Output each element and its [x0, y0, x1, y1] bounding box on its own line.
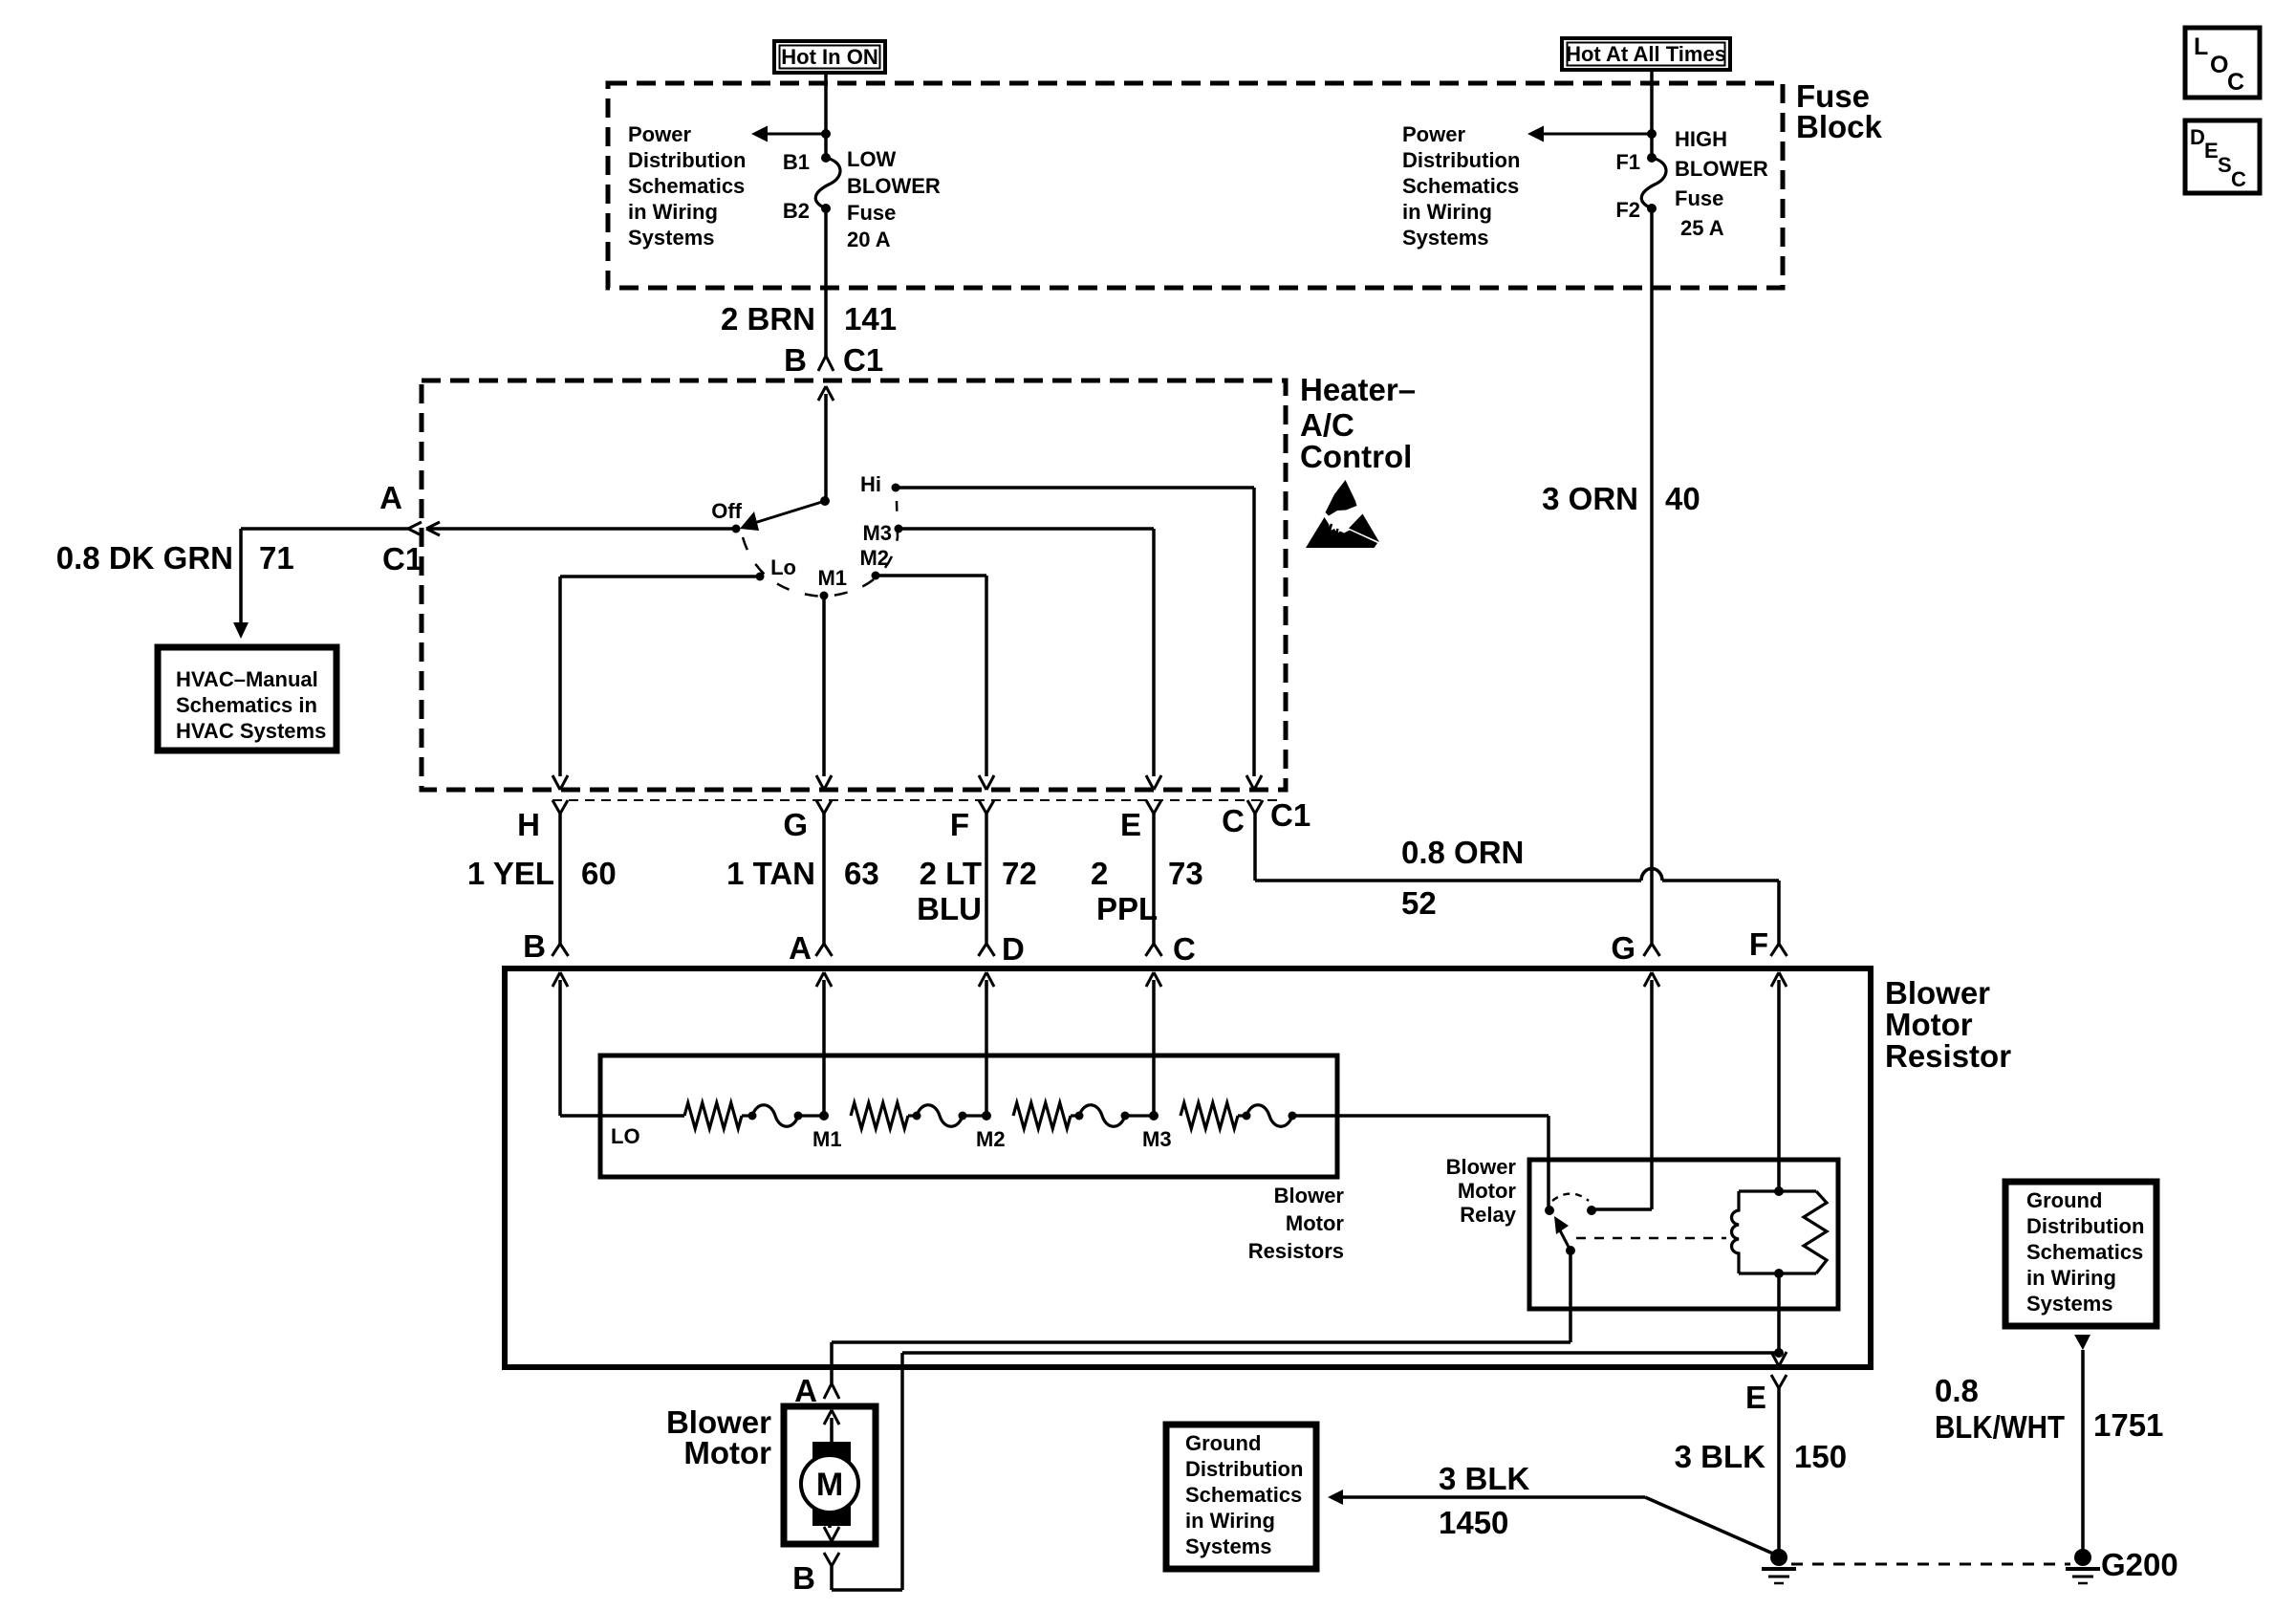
svg-text:F2: F2: [1615, 198, 1640, 222]
svg-text:BLK/WHT: BLK/WHT: [1935, 1409, 2065, 1445]
relay blade with arrow: [1560, 1230, 1570, 1251]
wire 3 ORN 40 down to connector G: [1650, 208, 1654, 944]
svg-text:B: B: [792, 1560, 815, 1596]
junction node: [1647, 129, 1657, 139]
resistor M2-M3: [1013, 1103, 1071, 1129]
wire F down to relay coil: [1777, 980, 1781, 1191]
fuse block dashed box: [608, 83, 1783, 288]
connector H (arrow + fork): [552, 775, 560, 790]
svg-text:Blower: Blower: [1885, 975, 1990, 1011]
svg-text:LOW: LOW: [847, 147, 897, 171]
svg-text:Control: Control: [1300, 439, 1412, 474]
HIGH BLOWER fuse 25A: [1647, 153, 1657, 163]
svg-text:150: 150: [1794, 1439, 1847, 1474]
svg-text:M1: M1: [817, 566, 847, 590]
relay resistor (right branch): [1804, 1191, 1827, 1273]
connector B into resistor box: [552, 944, 561, 956]
svg-text:C1: C1: [1270, 797, 1310, 833]
svg-text:BLOWER: BLOWER: [1675, 157, 1768, 181]
connector F (arrow + fork): [979, 775, 986, 790]
M1 contact (bottom): [820, 592, 829, 600]
M2 contact: [872, 572, 880, 580]
wire chain output to relay common: [1292, 1114, 1549, 1118]
svg-text:BLOWER: BLOWER: [847, 174, 941, 198]
relay contact dashed arc: [1552, 1194, 1589, 1202]
ground G200 (left): [1770, 1549, 1787, 1566]
svg-text:A: A: [789, 930, 812, 966]
svg-text:H: H: [517, 807, 540, 842]
thermal limiter 4: [1243, 1112, 1251, 1120]
svg-text:Power: Power: [628, 122, 691, 146]
wire from Hot In ON to junction: [824, 73, 828, 158]
relay common contact: [1545, 1206, 1554, 1215]
svg-text:D: D: [2190, 125, 2205, 149]
thermal limiter 2: [913, 1112, 921, 1120]
svg-text:3 BLK: 3 BLK: [1439, 1461, 1530, 1496]
wire Off to connector A: [426, 527, 732, 531]
switch position arc (dashed): [743, 501, 898, 597]
resistor LO-M1: [684, 1103, 742, 1129]
svg-text:Motor: Motor: [1458, 1179, 1517, 1203]
Off contact: [732, 525, 741, 533]
svg-text:O: O: [2210, 52, 2228, 78]
ground tie dashed line: [1791, 1563, 2070, 1566]
svg-text:in Wiring: in Wiring: [2026, 1266, 2116, 1290]
connector fork B/C1: [818, 356, 826, 371]
svg-text:52: 52: [1401, 885, 1437, 921]
svg-text:Ground: Ground: [1185, 1431, 1261, 1455]
svg-text:B: B: [523, 928, 546, 964]
svg-text:1 TAN: 1 TAN: [726, 856, 815, 891]
wire 0.8 DK GRN 71: [241, 527, 408, 531]
svg-text:E: E: [1120, 807, 1141, 842]
svg-text:2: 2: [1091, 856, 1108, 891]
svg-text:Schematics: Schematics: [2026, 1240, 2143, 1264]
svg-text:Fuse: Fuse: [847, 201, 896, 225]
svg-text:0.8: 0.8: [1935, 1373, 1979, 1408]
svg-text:M: M: [816, 1467, 843, 1503]
svg-text:1751: 1751: [2093, 1407, 2163, 1443]
wire 2 LT BLU 72 connector F to D: [985, 814, 988, 944]
wire 1 YEL 60 connector H to B: [558, 814, 562, 944]
svg-text:L: L: [2194, 33, 2208, 60]
Hi contact: [892, 484, 900, 492]
svg-text:in Wiring: in Wiring: [1402, 200, 1492, 224]
Blower Motor Resistor box: [505, 968, 1871, 1367]
blower motor arrow out: [828, 1522, 832, 1528]
svg-text:0.8 ORN: 0.8 ORN: [1401, 835, 1524, 870]
Heater-A/C Control dashed box: [422, 381, 1286, 790]
wire 1 TAN 63 connector G to A: [822, 814, 826, 944]
svg-text:Schematics: Schematics: [1402, 174, 1519, 198]
HVAC-Manual Schematics box: [158, 647, 336, 751]
svg-text:C: C: [2227, 69, 2244, 96]
connector D into resistor box: [979, 944, 987, 956]
svg-text:Systems: Systems: [1185, 1534, 1272, 1558]
blower motor resistors inner box: [600, 1055, 1337, 1177]
relay linkage dashed line: [1576, 1237, 1726, 1240]
node M2: [982, 1111, 991, 1120]
connector G (arrow + fork): [816, 775, 824, 790]
connector F into resistor box: [1771, 944, 1780, 956]
svg-text:HIGH: HIGH: [1675, 127, 1727, 151]
ESD sensitivity symbol: [1326, 480, 1357, 516]
wire M2 to connector F: [879, 574, 986, 577]
svg-text:Motor: Motor: [683, 1435, 771, 1470]
ground G200 (right): [2074, 1549, 2091, 1566]
svg-text:Schematics: Schematics: [1185, 1483, 1302, 1507]
wire D down to M2: [985, 980, 988, 1116]
svg-text:M1: M1: [812, 1127, 842, 1151]
relay coil bottom node: [1774, 1269, 1784, 1278]
svg-text:in Wiring: in Wiring: [1185, 1509, 1275, 1533]
wire G down to relay NC contact: [1650, 980, 1654, 1209]
svg-text:3 BLK: 3 BLK: [1675, 1439, 1766, 1474]
M3 contact: [895, 525, 903, 533]
svg-text:1450: 1450: [1439, 1505, 1508, 1540]
wire Hi to connector C: [899, 486, 1254, 490]
svg-text:Hi: Hi: [860, 472, 881, 496]
svg-text:Relay: Relay: [1460, 1203, 1516, 1227]
wire B to ground junction: [830, 1566, 834, 1590]
wire coil to ground junction: [1777, 1273, 1781, 1353]
svg-text:73: 73: [1168, 856, 1203, 891]
relay NC contact: [1587, 1206, 1596, 1215]
svg-text:B1: B1: [783, 150, 810, 174]
svg-text:G: G: [783, 807, 808, 842]
junction node: [821, 129, 831, 139]
Ground Distribution box (left): [1166, 1425, 1316, 1569]
resistor M3-out: [1180, 1103, 1238, 1129]
svg-text:in Wiring: in Wiring: [628, 200, 718, 224]
svg-text:M2: M2: [976, 1127, 1006, 1151]
wire 3 BLK 150 to ground: [1777, 1388, 1781, 1550]
relay NO contact: [1566, 1246, 1575, 1255]
wire Lo to connector H: [560, 575, 756, 578]
node M1: [819, 1111, 829, 1120]
svg-text:B2: B2: [783, 199, 810, 223]
wire B down to resistor chain: [558, 980, 562, 1116]
wire blower motor B return: [902, 1351, 1779, 1355]
connector C into resistor box: [1146, 944, 1155, 956]
connector C (arrow + fork): [1246, 775, 1254, 790]
svg-text:Distribution: Distribution: [1402, 148, 1520, 172]
svg-text:Motor: Motor: [1885, 1007, 1973, 1042]
wire relay NO to blower motor A: [1569, 1251, 1572, 1342]
svg-text:Block: Block: [1796, 109, 1883, 144]
svg-text:F: F: [950, 807, 969, 842]
svg-text:HVAC Systems: HVAC Systems: [176, 719, 326, 743]
blower motor arrow in: [824, 1410, 832, 1425]
svg-text:1 YEL: 1 YEL: [467, 856, 554, 891]
svg-text:E: E: [2204, 139, 2219, 163]
svg-text:D: D: [1002, 931, 1025, 967]
svg-text:Distribution: Distribution: [628, 148, 746, 172]
svg-text:PPL: PPL: [1096, 891, 1158, 926]
Ground Distribution box (right): [2005, 1182, 2156, 1326]
wire C down to M3: [1152, 980, 1156, 1116]
wire M3 to connector E: [902, 527, 1154, 531]
svg-text:Hot At All Times: Hot At All Times: [1566, 42, 1726, 66]
svg-text:C: C: [1222, 803, 1245, 838]
svg-text:2 LT: 2 LT: [920, 856, 982, 891]
svg-text:C: C: [1173, 931, 1196, 967]
wire 3 BLK 1450: [1343, 1495, 1645, 1499]
thermal limiter 1: [748, 1112, 757, 1120]
svg-text:B: B: [784, 342, 807, 378]
relay NC wire to G: [1595, 1207, 1652, 1211]
ground junction node: [1774, 1348, 1784, 1358]
Hot At All Times label box: [1562, 38, 1730, 70]
connector E (arrow + fork): [1146, 775, 1154, 790]
svg-text:Hot In ON: Hot In ON: [781, 45, 877, 69]
wire 0.8 BLK/WHT 1751: [2081, 1350, 2085, 1550]
switch blade with arrow to Off: [754, 501, 825, 523]
svg-text:A/C: A/C: [1300, 407, 1354, 443]
resistor M1-M2: [851, 1103, 908, 1129]
LOW BLOWER fuse 20A: [821, 153, 831, 163]
svg-text:F1: F1: [1615, 150, 1640, 174]
connector arrow into box at B/C1: [818, 386, 826, 401]
svg-text:Motor: Motor: [1286, 1211, 1345, 1235]
svg-text:Schematics in: Schematics in: [176, 693, 317, 717]
svg-text:Systems: Systems: [628, 226, 715, 250]
svg-text:Systems: Systems: [2026, 1292, 2113, 1316]
svg-text:72: 72: [1002, 856, 1037, 891]
connector B out of blower motor: [824, 1553, 832, 1566]
svg-text:3 ORN: 3 ORN: [1542, 481, 1638, 516]
svg-text:G200: G200: [2101, 1547, 2178, 1582]
svg-text:60: 60: [581, 856, 617, 891]
relay coil (left branch): [1732, 1191, 1740, 1273]
svg-text:C1: C1: [843, 342, 883, 378]
svg-text:2 BRN: 2 BRN: [721, 301, 815, 337]
svg-text:LO: LO: [611, 1124, 640, 1148]
svg-text:0.8 DK GRN: 0.8 DK GRN: [56, 540, 233, 576]
svg-text:63: 63: [844, 856, 879, 891]
svg-text:Resistors: Resistors: [1248, 1239, 1344, 1263]
svg-text:Lo: Lo: [770, 555, 796, 579]
arrow into Ground Distribution (left): [1328, 1490, 1343, 1505]
svg-text:C: C: [2231, 167, 2246, 191]
svg-text:M3: M3: [862, 521, 892, 545]
wire from Hot At All Times to junction: [1650, 70, 1654, 158]
arrow to Power Distribution (right): [1544, 133, 1652, 136]
relay coil top node: [1774, 1186, 1784, 1196]
svg-text:HVAC–Manual: HVAC–Manual: [176, 667, 318, 691]
wire M1 to connector G: [822, 599, 826, 776]
wire from B/C1 to switch pivot: [824, 394, 828, 501]
svg-text:F: F: [1749, 926, 1768, 962]
connector A at box edge: [426, 522, 440, 529]
arrow out of Ground Distribution (right): [2074, 1335, 2090, 1350]
svg-text:Blower: Blower: [1274, 1184, 1345, 1207]
svg-text:S: S: [2218, 153, 2232, 177]
svg-text:Distribution: Distribution: [2026, 1214, 2144, 1238]
svg-text:M3: M3: [1142, 1127, 1172, 1151]
blower motor armature M: [801, 1455, 858, 1512]
svg-text:A: A: [379, 480, 402, 515]
Hot In ON label box: [774, 41, 885, 73]
svg-text:40: 40: [1665, 481, 1700, 516]
connector A into resistor box: [816, 944, 825, 956]
wire 0.8 ORN 52 connector C1 to F: [1253, 814, 1257, 881]
DESC reference box: [2185, 120, 2260, 193]
svg-text:A: A: [794, 1373, 817, 1408]
svg-text:20 A: 20 A: [847, 228, 891, 251]
connector A into blower motor: [824, 1383, 832, 1399]
svg-text:Resistor: Resistor: [1885, 1038, 2011, 1074]
Blower Motor Relay box: [1529, 1160, 1838, 1309]
blower motor brushes: [812, 1442, 851, 1462]
svg-text:G: G: [1611, 930, 1635, 966]
svg-text:25 A: 25 A: [1680, 216, 1724, 240]
svg-text:M2: M2: [859, 546, 889, 570]
LOC reference box: [2185, 28, 2260, 98]
svg-text:Schematics: Schematics: [628, 174, 745, 198]
thermal limiter 3: [1075, 1112, 1084, 1120]
svg-text:C1: C1: [382, 541, 422, 577]
wire 2 PPL 73 connector E to C: [1152, 814, 1156, 944]
svg-text:Heater–: Heater–: [1300, 372, 1416, 407]
wire A down to M1: [822, 980, 826, 1116]
arrow into HVAC-Manual box: [233, 622, 249, 639]
svg-text:Off: Off: [711, 499, 742, 523]
node M3: [1149, 1111, 1159, 1120]
wire B2 to connector B/C1: [824, 208, 828, 356]
svg-text:Distribution: Distribution: [1185, 1457, 1303, 1481]
blower motor box: [784, 1406, 876, 1544]
svg-text:Power: Power: [1402, 122, 1465, 146]
svg-text:141: 141: [844, 301, 897, 337]
connector E out of resistor box: [1771, 1352, 1779, 1366]
svg-text:Fuse: Fuse: [1675, 186, 1723, 210]
svg-text:E: E: [1745, 1380, 1766, 1415]
arrow to Power Distribution (left): [768, 133, 826, 136]
svg-text:71: 71: [259, 540, 294, 576]
svg-text:Systems: Systems: [1402, 226, 1489, 250]
Lo contact: [756, 573, 765, 581]
svg-text:Blower: Blower: [1446, 1155, 1517, 1179]
switch pivot node: [820, 496, 830, 506]
connector G into resistor box: [1644, 944, 1653, 956]
connector boundary dashed line C1: [552, 799, 1282, 801]
svg-text:BLU: BLU: [917, 891, 982, 926]
svg-text:Ground: Ground: [2026, 1188, 2102, 1212]
resistor chain entry wire: [560, 1114, 684, 1118]
